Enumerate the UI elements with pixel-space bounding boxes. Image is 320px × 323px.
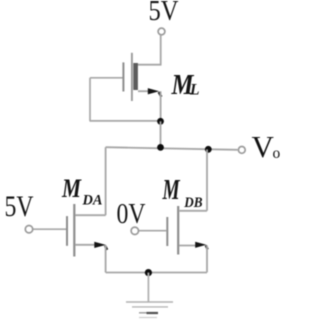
arrow M_DB source bbox=[195, 242, 206, 248]
transistor M_L channel line bbox=[131, 53, 133, 101]
svg-text:M: M bbox=[61, 174, 82, 203]
corner nub M_DA bbox=[105, 246, 107, 250]
transistor M_DA channel bar bbox=[73, 204, 75, 257]
corner nub M_L bbox=[159, 92, 162, 97]
wire M_L source vertical bbox=[160, 91, 162, 121]
transistor M_DB channel bar bbox=[177, 206, 179, 255]
svg-text:L: L bbox=[189, 82, 199, 99]
wire gate-source loop vertical bbox=[89, 78, 91, 121]
svg-text:5V: 5V bbox=[5, 191, 34, 223]
wire bottom source rail bbox=[106, 272, 207, 274]
terminal Vo bbox=[238, 147, 245, 154]
terminal VDD bbox=[158, 28, 165, 35]
junction dot output-MDB bbox=[205, 146, 212, 153]
transistor M_L gate bar bbox=[122, 62, 124, 91]
wire VDD terminal to M_L drain bbox=[160, 35, 162, 65]
svg-text:o: o bbox=[273, 145, 281, 162]
wire M_DA source vertical bbox=[105, 245, 107, 273]
ground bar 1 bbox=[126, 301, 173, 303]
wire M_L source horizontal bbox=[138, 90, 152, 92]
wire M_DA drain horizontal bbox=[76, 214, 106, 216]
ground bar 3 bbox=[139, 312, 158, 314]
wire M_DB gate bbox=[138, 230, 166, 232]
svg-text:5V: 5V bbox=[149, 0, 179, 27]
wire gate-source loop horizontal bbox=[90, 120, 161, 122]
wire output rail bbox=[106, 147, 238, 150]
svg-text:M: M bbox=[162, 175, 181, 206]
svg-text:DA: DA bbox=[82, 193, 103, 209]
arrow M_L source bbox=[148, 88, 159, 94]
wire junction to output rail bbox=[160, 121, 162, 147]
svg-text:0V: 0V bbox=[117, 199, 146, 230]
wire M_DB source horizontal bbox=[179, 245, 198, 247]
wire M_DB drain vertical bbox=[206, 149, 208, 210]
terminal input A bbox=[25, 226, 32, 233]
wire M_DB drain horizontal bbox=[180, 210, 208, 212]
wire M_L gate stub bbox=[90, 77, 123, 79]
corner nub M_DB bbox=[206, 245, 208, 249]
wire M_DA source horizontal bbox=[75, 244, 97, 246]
wire output to M_DA drain bbox=[105, 147, 107, 215]
transistor M_DA gate bar bbox=[66, 216, 68, 246]
arrow M_DA source bbox=[94, 242, 106, 248]
ground bar 3 dark segment bbox=[147, 312, 159, 314]
wire ground tap bbox=[147, 273, 149, 302]
ground smudge bbox=[139, 317, 157, 319]
junction dot gate-source node bbox=[157, 118, 164, 125]
wire M_DA gate bbox=[33, 228, 67, 230]
terminal input B bbox=[131, 227, 138, 234]
transistor M_L depletion bar bbox=[133, 63, 138, 90]
wire M_L drain horizontal bbox=[134, 64, 162, 66]
ground bar 2 bbox=[132, 306, 168, 308]
svg-text:V: V bbox=[252, 129, 275, 164]
junction dot output-load bbox=[157, 144, 164, 151]
wire M_DB source vertical bbox=[206, 246, 208, 273]
svg-text:DB: DB bbox=[183, 195, 202, 211]
junction dot ground node bbox=[145, 269, 152, 276]
transistor M_DB gate bar bbox=[166, 217, 168, 246]
